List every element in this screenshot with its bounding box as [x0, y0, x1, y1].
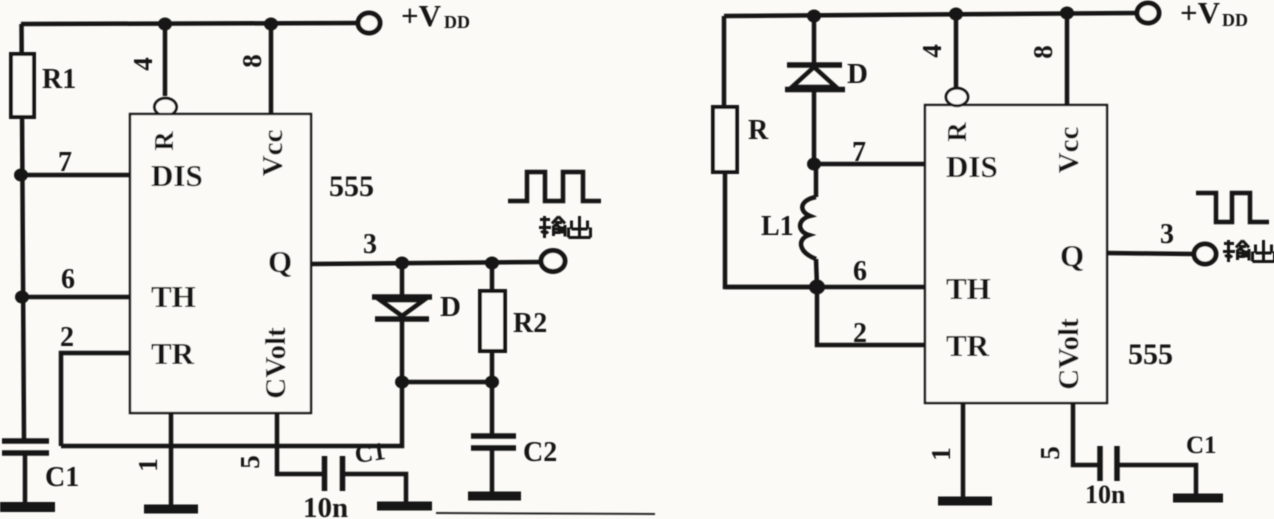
node R2 bottom: [485, 376, 499, 389]
resistor R right: [713, 107, 737, 172]
pin label 6 right: [853, 256, 867, 287]
wire node row left: [402, 380, 492, 385]
pin label TH right: [946, 271, 991, 306]
svg-text:Vcc: Vcc: [1053, 127, 1085, 174]
terminal output right: [1194, 244, 1216, 264]
svg-text:D: D: [440, 291, 461, 323]
svg-text:8: 8: [237, 54, 267, 68]
node pin7 left rail: [14, 169, 28, 182]
wire top rail left: [21, 23, 358, 24]
pin label 8 right: [1028, 45, 1058, 59]
svg-text:1: 1: [926, 447, 956, 461]
wire output Q right: [1107, 253, 1194, 254]
wire bottom run left: [61, 382, 402, 446]
pin label 2 left: [60, 322, 74, 353]
wire pin6 left: [22, 295, 130, 300]
pin label 8 left: [237, 54, 267, 68]
label +VDD left: [401, 0, 470, 33]
label +VDD right: [1180, 0, 1248, 30]
wire pin2 left: [61, 353, 130, 446]
svg-text:6: 6: [61, 264, 75, 295]
svg-text:DD: DD: [444, 12, 470, 32]
svg-text:L1: L1: [761, 211, 794, 242]
svg-text:C1: C1: [1186, 432, 1217, 459]
node diode bottom: [395, 376, 409, 389]
pin label 1 right: [926, 447, 956, 461]
ground 10n left: [377, 502, 432, 511]
wire output Q left: [311, 262, 542, 264]
svg-text:R2: R2: [513, 308, 547, 339]
pin label 4 left: [128, 57, 158, 71]
inductor L1: [814, 164, 819, 197]
wire left branch vertical: [22, 24, 25, 440]
node pin7 right: [807, 158, 821, 171]
svg-text:TR: TR: [151, 336, 195, 371]
svg-text:555: 555: [329, 170, 374, 203]
svg-text:2: 2: [853, 318, 867, 349]
waveform left: [508, 172, 601, 201]
svg-text:6: 6: [853, 256, 867, 287]
wire left branch right circuit: [722, 16, 727, 107]
svg-text:10n: 10n: [303, 492, 348, 519]
svg-text:4: 4: [917, 44, 947, 58]
pin label 3 right: [1160, 219, 1174, 250]
node pin8 rail: [264, 18, 278, 31]
scan artifact line bottom: [436, 513, 655, 514]
svg-text:C2: C2: [523, 437, 557, 468]
op IC 555 box left: [130, 114, 311, 413]
svg-text:DD: DD: [1222, 10, 1248, 30]
svg-text:3: 3: [363, 229, 377, 260]
wire top rail right: [724, 13, 1137, 16]
ground C1 left: [0, 502, 55, 512]
resistor R2: [490, 263, 495, 291]
svg-text:TH: TH: [946, 271, 991, 306]
svg-text:DIS: DIS: [151, 158, 203, 193]
svg-text:C1: C1: [353, 438, 387, 469]
waveform right: [1196, 193, 1269, 222]
wire pin4 left: [163, 24, 168, 96]
pin label Q left: [268, 244, 292, 279]
svg-text:R: R: [149, 131, 179, 151]
node pin4 right: [949, 8, 963, 21]
svg-text:2: 2: [60, 322, 74, 353]
node diode top: [395, 257, 409, 270]
svg-text:Q: Q: [1060, 238, 1084, 273]
capacitor C2: [490, 382, 495, 435]
pin label R left: [149, 131, 179, 151]
IC 555 box right: [925, 105, 1107, 403]
pin label 7 left: [58, 147, 72, 178]
svg-text:7: 7: [852, 137, 866, 168]
pin label Vcc right: [1053, 127, 1085, 174]
pin label 6 left: [61, 264, 75, 295]
label output chinese left: [539, 216, 591, 238]
svg-text:5: 5: [1035, 446, 1065, 460]
svg-text:10n: 10n: [1085, 480, 1126, 509]
ground C2: [468, 492, 521, 501]
svg-text:5: 5: [235, 455, 265, 469]
label 555 left: [329, 170, 374, 203]
svg-text:D: D: [847, 58, 868, 90]
svg-text:8: 8: [1028, 45, 1058, 59]
wire pin7 right: [814, 162, 925, 167]
node pin6 left rail: [15, 291, 29, 304]
svg-text:+V: +V: [1180, 0, 1221, 30]
svg-text:Q: Q: [268, 244, 292, 279]
pin label TR left: [151, 336, 195, 371]
svg-text:CVolt: CVolt: [1053, 318, 1085, 390]
ground 10n right: [1173, 494, 1223, 503]
wire pin6 right: [725, 285, 925, 290]
svg-text:1: 1: [133, 458, 163, 472]
pin label 5 right: [1035, 446, 1065, 460]
svg-text:7: 7: [58, 147, 72, 178]
pin label TR right: [946, 328, 990, 363]
svg-text:TR: TR: [946, 328, 990, 363]
svg-text:TH: TH: [151, 279, 196, 314]
wire R bottom to node: [725, 172, 816, 287]
terminal +VDD left: [358, 13, 380, 33]
resistor R1: [11, 54, 34, 117]
svg-text:4: 4: [128, 57, 158, 71]
ground pin1 left: [144, 505, 198, 514]
ground pin1 right: [938, 497, 992, 506]
pin label 7 right: [852, 137, 866, 168]
svg-text:CVolt: CVolt: [260, 327, 292, 399]
node mid right: [809, 280, 825, 295]
pin label DIS right: [946, 149, 998, 184]
pin label TH left: [151, 279, 196, 314]
wire pin5 right: [1073, 403, 1098, 465]
diode D1 left: [400, 263, 405, 299]
pin label CVolt left: [260, 327, 292, 399]
capacitor C1 10n right: [1097, 446, 1103, 481]
pin label CVolt right: [1053, 318, 1085, 390]
pin label Vcc left: [257, 130, 289, 177]
svg-text:C1: C1: [45, 462, 79, 493]
svg-text:555: 555: [1128, 338, 1173, 371]
capacitor C1 10n left: [322, 456, 328, 491]
pin label DIS left: [151, 158, 203, 193]
terminal output left: [541, 251, 565, 272]
pin label 5 left: [235, 455, 265, 469]
wire pin8 left: [269, 24, 274, 114]
capacitor C1 bottom left: [2, 438, 49, 444]
wire pin1 left: [169, 413, 174, 506]
pin label 2 right: [853, 318, 867, 349]
wire pin2 right: [817, 287, 925, 345]
svg-text:R: R: [748, 115, 769, 146]
wire pin5 left: [277, 413, 322, 474]
wire pin4 right: [954, 14, 959, 88]
label output chinese right: [1223, 240, 1274, 262]
label 555 right: [1128, 338, 1173, 371]
pin label Q right: [1060, 238, 1084, 273]
reset bubble left: [155, 98, 177, 116]
wire pin1 right: [961, 403, 966, 498]
svg-text:R1: R1: [42, 64, 76, 95]
node pin4 rail: [158, 18, 172, 31]
svg-text:+V: +V: [401, 0, 442, 33]
reset bubble right: [946, 88, 968, 106]
diode D right: [807, 10, 821, 23]
wire pin8 right: [1065, 13, 1070, 105]
svg-text:DIS: DIS: [946, 149, 998, 184]
pin label 3 left: [363, 229, 377, 260]
pin label 4 right: [917, 44, 947, 58]
pin label R right: [942, 122, 972, 142]
svg-text:3: 3: [1160, 219, 1174, 250]
node R2 top: [485, 257, 499, 270]
wire pin7 left: [20, 173, 130, 178]
svg-text:R: R: [942, 122, 972, 142]
node pin8 right: [1060, 7, 1074, 20]
svg-text:Vcc: Vcc: [257, 130, 289, 177]
terminal +VDD right: [1137, 3, 1159, 23]
pin label 1 left: [133, 458, 163, 472]
